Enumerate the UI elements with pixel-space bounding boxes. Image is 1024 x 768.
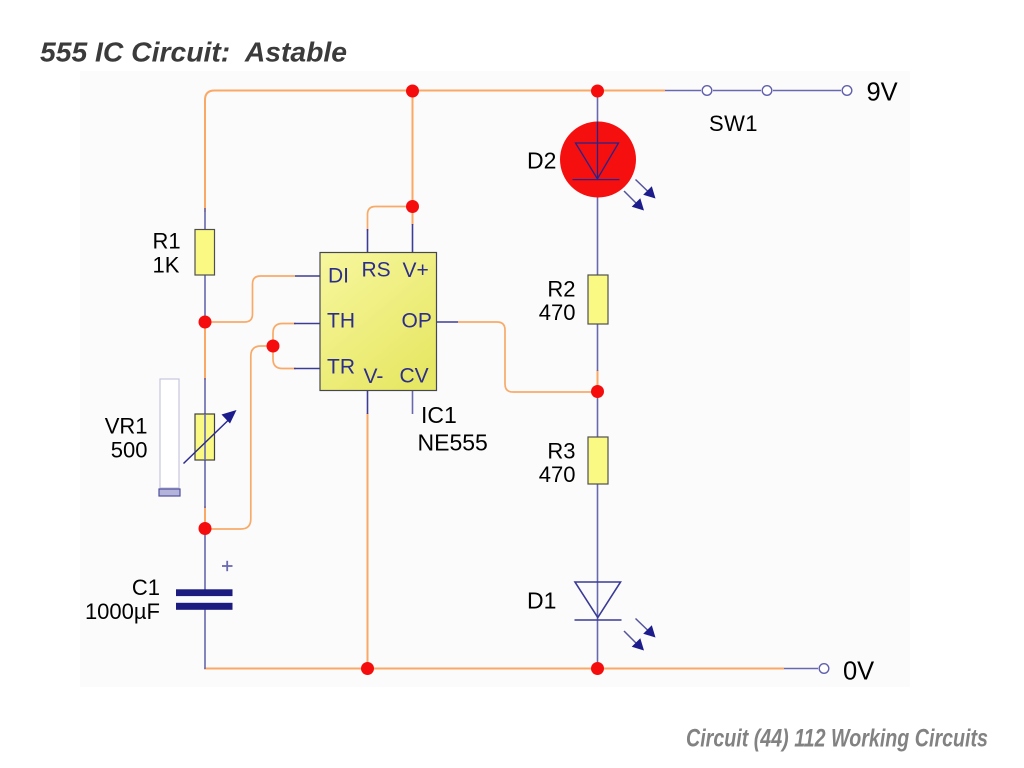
svg-text:TR: TR <box>327 356 355 379</box>
svg-text:C1: C1 <box>132 575 160 600</box>
svg-text:R1: R1 <box>153 229 181 254</box>
svg-text:NE555: NE555 <box>418 430 488 456</box>
svg-text:RS: RS <box>362 259 391 282</box>
svg-text:1000µF: 1000µF <box>85 599 160 624</box>
svg-text:V+: V+ <box>403 259 429 282</box>
svg-text:0V: 0V <box>843 658 874 686</box>
svg-text:TH: TH <box>327 310 355 333</box>
svg-text:IC1: IC1 <box>421 402 457 428</box>
svg-text:D2: D2 <box>527 148 556 174</box>
svg-text:V-: V- <box>364 365 384 388</box>
svg-text:CV: CV <box>400 365 429 388</box>
svg-text:SW1: SW1 <box>709 111 758 136</box>
svg-text:1K: 1K <box>153 253 180 278</box>
svg-text:470: 470 <box>539 462 576 487</box>
svg-text:500: 500 <box>111 438 148 463</box>
svg-text:Circuit (44) 112 Working Circu: Circuit (44) 112 Working Circuits <box>686 725 988 753</box>
svg-text:VR1: VR1 <box>105 414 148 439</box>
svg-text:OP: OP <box>402 310 432 333</box>
svg-text:470: 470 <box>539 300 576 325</box>
svg-text:R3: R3 <box>547 439 575 464</box>
svg-text:R2: R2 <box>547 277 575 302</box>
svg-text:D1: D1 <box>527 588 556 614</box>
svg-text:555 IC Circuit: Astable: 555 IC Circuit: Astable <box>40 37 347 68</box>
svg-text:DI: DI <box>328 265 349 288</box>
svg-text:9V: 9V <box>867 79 898 107</box>
